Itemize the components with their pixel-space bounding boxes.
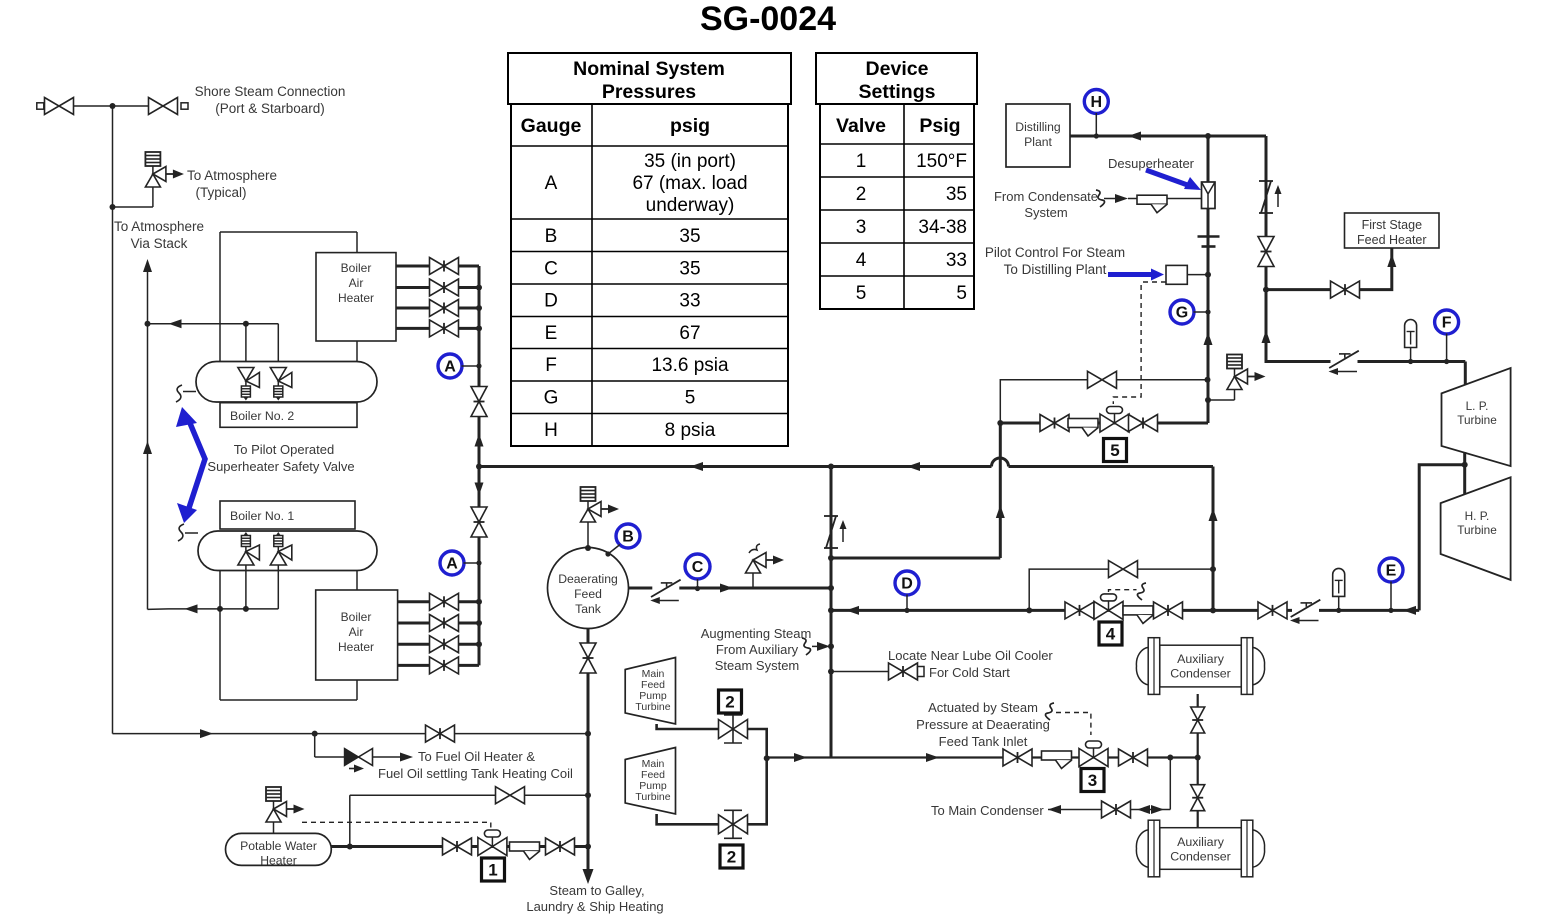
wire BAH1 steam line 1	[398, 600, 479, 603]
junction MFPT exhaust	[764, 755, 770, 761]
wire potable heater steam line y=846	[331, 845, 588, 848]
svg-text:Condenser: Condenser	[1170, 850, 1231, 864]
table DS header text	[836, 58, 961, 137]
junction riser-header	[476, 464, 482, 470]
strainer valve1	[510, 842, 540, 860]
svg-text:Turbine: Turbine	[1457, 413, 1497, 427]
arrowhead drain flow left	[169, 319, 182, 328]
valve lube oil cooler	[889, 663, 918, 680]
svg-text:L. P.: L. P.	[1466, 399, 1489, 413]
valve potable line isolation 1	[443, 838, 472, 855]
svg-text:G: G	[544, 388, 559, 409]
wire gauge F stub	[1446, 334, 1448, 362]
junction drain1 casing	[217, 606, 223, 612]
svg-text:Auxiliary: Auxiliary	[1177, 835, 1225, 849]
drum Boiler No.2	[196, 362, 377, 403]
svg-text:Distilling: Distilling	[1015, 120, 1060, 134]
check valve riser x=831	[824, 516, 847, 548]
wire BAH2 steam line 4	[396, 327, 479, 330]
svg-text:H. P.: H. P.	[1465, 509, 1490, 523]
wire BAH2 to drum	[356, 341, 358, 362]
relief valve on C line	[746, 553, 767, 574]
wire valve4 bypass	[1029, 569, 1213, 610]
turbine L.P.	[1442, 368, 1511, 466]
turbine Main Feed Pump Turbine 1	[625, 658, 675, 725]
svg-text:A: A	[444, 359, 456, 376]
valve 4 bypass	[1109, 561, 1138, 578]
svg-text:35: 35	[679, 259, 700, 280]
junction BAH2 line tee	[476, 285, 482, 291]
safety valve boiler1 left	[238, 532, 260, 565]
wire from condensate	[1104, 198, 1117, 200]
arrowhead distilling flow left	[1128, 132, 1141, 141]
arrowhead riser flow down below header	[475, 483, 484, 496]
valve E line	[1258, 602, 1287, 619]
arrowhead riser flow up to BAH2	[475, 434, 484, 447]
svg-text:Heater: Heater	[338, 291, 374, 305]
gauge F	[1435, 310, 1459, 334]
arrowhead header flow left 1	[690, 462, 703, 471]
arrowhead to main condenser double L	[1137, 805, 1150, 814]
wire BAH1 to drum	[356, 570, 358, 590]
svg-text:To Main Condenser: To Main Condenser	[931, 803, 1044, 818]
svg-text:Pilot Control For Steam: Pilot Control For Steam	[985, 245, 1125, 260]
svg-text:Feed Tank Inlet: Feed Tank Inlet	[939, 734, 1028, 749]
thermometer E line	[1333, 568, 1345, 610]
svg-text:C: C	[544, 259, 558, 280]
brace valve4 pilot	[1137, 583, 1146, 600]
svg-text:Locate Near Lube Oil Cooler: Locate Near Lube Oil Cooler	[888, 648, 1053, 663]
safety valve boiler2 left	[238, 368, 260, 401]
wire lube oil cooler branch	[831, 671, 888, 673]
svg-text:B: B	[545, 226, 558, 247]
wire aux condenser connection	[1197, 694, 1199, 828]
safety valve boiler1 right	[270, 532, 292, 565]
wire desuperheater riser x=1208	[1207, 136, 1210, 423]
svg-text:3: 3	[856, 217, 867, 238]
svg-text:Gauge: Gauge	[521, 115, 582, 137]
check valve E line	[1290, 600, 1320, 624]
control valve 4	[1094, 594, 1123, 620]
svg-text:Feed Heater: Feed Heater	[1357, 233, 1426, 247]
junction boiler2 drain tee	[145, 321, 151, 327]
brace augmenting steam	[802, 638, 811, 655]
valve BAH1 line 4	[430, 657, 459, 674]
svg-text:For Cold Start: For Cold Start	[929, 665, 1010, 680]
check valve F line	[1329, 351, 1359, 375]
svg-text:Heater: Heater	[260, 854, 297, 868]
wire to fuel oil heater branch	[314, 734, 316, 757]
wire stack vent riser x=147	[147, 262, 149, 609]
svg-text:Turbine: Turbine	[1457, 523, 1497, 537]
svg-text:Steam System: Steam System	[715, 658, 800, 673]
gauge E	[1379, 558, 1403, 582]
wire MFPT1 exhaust	[657, 724, 767, 758]
valve aux condenser upper	[1191, 707, 1205, 733]
svg-text:Boiler No. 1: Boiler No. 1	[230, 509, 294, 523]
svg-text:Potable Water: Potable Water	[240, 839, 317, 853]
svg-text:F: F	[545, 355, 557, 376]
svg-text:Superheater Safety Valve: Superheater Safety Valve	[207, 459, 354, 474]
wire riser x=1213 from header	[1212, 467, 1215, 611]
junction bypass riser	[347, 844, 353, 850]
svg-text:8 psia: 8 psia	[665, 420, 716, 441]
control valve 3	[1079, 741, 1108, 767]
valve BAH1 line 1	[430, 593, 459, 610]
wire valve5 bypass	[1000, 380, 1207, 423]
svg-text:To Atmosphere: To Atmosphere	[187, 168, 277, 183]
wire boiler1 casing right lower	[356, 680, 358, 700]
svg-text:psig: psig	[670, 115, 710, 137]
svg-text:13.6 psia: 13.6 psia	[651, 355, 729, 376]
arrowhead steam to galley down	[583, 869, 594, 884]
vessel Auxiliary Condenser lower	[1136, 820, 1264, 877]
wire sv riser right boiler1	[277, 565, 279, 609]
brace from condensate	[1096, 190, 1105, 207]
svg-text:underway): underway)	[646, 195, 735, 216]
valve shore steam port	[45, 98, 74, 115]
svg-text:Boiler: Boiler	[341, 610, 372, 624]
svg-text:Steam to Galley,: Steam to Galley,	[549, 883, 644, 898]
dashed pilot line valve 4	[1109, 590, 1137, 592]
junction condenser line	[1195, 755, 1201, 761]
wire potable relief stem	[273, 822, 275, 833]
flange cap left	[37, 103, 44, 109]
arrowhead header flow left 2	[907, 462, 920, 471]
svg-text:33: 33	[946, 250, 967, 271]
wire gauge H stub	[1095, 113, 1097, 136]
svg-text:D: D	[901, 576, 913, 593]
numbox 2 upper	[719, 690, 742, 713]
relief valve potable water heater	[266, 787, 305, 822]
wire auxiliary steam header y=466	[479, 465, 1213, 468]
flange cap right	[181, 103, 188, 109]
arrowhead drain1 flow left	[185, 604, 198, 613]
wire E line corner riser	[1419, 465, 1465, 611]
svg-text:1: 1	[856, 151, 867, 172]
svg-text:Device: Device	[866, 58, 929, 80]
valve 5 isolation right	[1129, 415, 1158, 432]
junction valve4 bypass riser	[1026, 607, 1032, 613]
strainer valve3	[1042, 751, 1072, 769]
table Device Settings	[816, 53, 977, 309]
svg-text:Laundry & Ship Heating: Laundry & Ship Heating	[526, 899, 663, 914]
valve BAH1 line 3	[430, 636, 459, 653]
svg-text:Nominal System: Nominal System	[573, 58, 725, 80]
valve aux condenser lower	[1191, 785, 1205, 811]
valve fuel oil line	[426, 725, 455, 742]
wire valve5 line y=423	[1000, 422, 1208, 425]
box pilot control	[1166, 265, 1187, 284]
svg-text:Via Stack: Via Stack	[131, 236, 188, 251]
svg-text:A: A	[545, 173, 558, 194]
junction pilot box	[1205, 272, 1211, 278]
arrowhead stack vent up	[143, 259, 152, 272]
junction first stage feed heater branch	[1263, 287, 1269, 293]
wire gauge G stub	[1194, 311, 1209, 313]
junction turbine bleed	[1462, 462, 1468, 468]
svg-text:5: 5	[685, 388, 696, 409]
wire link y=558	[831, 557, 1000, 560]
svg-text:To Atmosphere: To Atmosphere	[114, 219, 204, 234]
svg-text:Valve: Valve	[836, 115, 886, 137]
svg-text:First Stage: First Stage	[1362, 218, 1422, 232]
numbox 4	[1099, 622, 1122, 645]
junction fuel oil tee	[312, 731, 318, 737]
box label Boiler No. 2	[220, 403, 357, 428]
wire tank relief stem	[587, 522, 589, 549]
svg-text:Desuperheater: Desuperheater	[1108, 156, 1195, 171]
svg-text:35 (in port): 35 (in port)	[644, 151, 736, 172]
svg-text:Deaerating: Deaerating	[558, 572, 618, 586]
blue arrow desuperheater	[1146, 170, 1193, 187]
hop bridge over x=1000 riser	[992, 458, 1009, 467]
svg-text:Auxiliary: Auxiliary	[1177, 652, 1225, 666]
relief valve steam to distilling	[1227, 355, 1266, 390]
junction BAH2 line tee	[476, 325, 482, 331]
wire shore steam horizontal	[43, 105, 151, 107]
dashed pilot line valve 3	[1056, 713, 1091, 736]
dashed pilot line valve 5	[1113, 285, 1141, 404]
wire MFPT2 exhaust	[657, 758, 767, 824]
junction header x=831	[828, 464, 834, 470]
arrowhead E line flow left	[1403, 606, 1416, 615]
wire left main riser x=112	[112, 106, 114, 734]
wire boiler1 safety drain line	[169, 608, 279, 610]
svg-text:F: F	[1442, 315, 1452, 332]
numbox 1	[482, 858, 505, 881]
junction desuperheater riser	[1205, 133, 1211, 139]
svg-text:Boiler: Boiler	[341, 261, 372, 275]
wire riser x=478 boiler steam	[478, 266, 481, 665]
arrowhead exhaust flow right	[794, 753, 807, 762]
wire BAH2 steam line 2	[396, 286, 479, 289]
wire boiler2 casing right upper	[356, 232, 358, 253]
check valve tank outlet	[650, 580, 680, 604]
junction relief branch	[1205, 397, 1211, 403]
strainer condensate line	[1137, 195, 1167, 213]
junction valve4 bypass	[1210, 566, 1216, 572]
svg-text:3: 3	[1088, 771, 1097, 790]
svg-text:Turbine: Turbine	[635, 701, 670, 713]
svg-text:5: 5	[856, 283, 867, 304]
wire boiler2 casing left	[219, 232, 221, 362]
junction galley-bypass	[585, 792, 591, 798]
svg-text:H: H	[544, 420, 558, 441]
svg-text:From Condensate: From Condensate	[994, 189, 1098, 204]
wire MFPT exhaust header y=757	[767, 756, 1198, 758]
svg-text:4: 4	[1106, 625, 1116, 644]
junction C line to x=831 riser	[828, 585, 834, 591]
junction x=1213	[1210, 607, 1216, 613]
valve BAH2 line 2	[430, 279, 459, 296]
wire galley steam line x=588	[587, 629, 590, 870]
svg-text:Condenser: Condenser	[1170, 667, 1231, 681]
blue arrow pilot control	[1108, 272, 1155, 277]
arrowhead into FSFH	[1387, 254, 1396, 267]
junction BAH2 line tee	[476, 305, 482, 311]
wire to atmosphere relief elbow	[113, 206, 153, 208]
arrowhead C line flow right	[720, 584, 733, 593]
wire main line D y=610	[831, 609, 1419, 612]
wire C line relief stem	[752, 573, 754, 588]
svg-text:To Fuel Oil Heater &: To Fuel Oil Heater &	[418, 749, 535, 764]
orifice bars	[1198, 235, 1220, 238]
svg-text:150°F: 150°F	[916, 151, 967, 172]
svg-text:To Pilot Operated: To Pilot Operated	[234, 442, 334, 457]
relief valve deaerating tank	[581, 487, 620, 522]
junction sv riser left	[243, 321, 249, 327]
svg-text:System: System	[1024, 205, 1067, 220]
wire pressure reducing bypass y=795	[350, 794, 588, 796]
valve shore steam starboard	[149, 98, 178, 115]
svg-text:(Typical): (Typical)	[195, 185, 246, 200]
tank Potable Water Heater	[226, 833, 332, 865]
numbox 3	[1081, 769, 1104, 792]
wire BAH2 steam line 3	[396, 307, 479, 310]
junction y=558 branch	[828, 555, 834, 561]
arrowhead from condensate	[1115, 194, 1128, 203]
svg-text:B: B	[622, 529, 634, 546]
safety valve boiler2 right	[270, 368, 292, 401]
svg-text:C: C	[692, 559, 704, 576]
numbox 2 lower	[720, 845, 743, 868]
valve 3 isolation left	[1003, 749, 1032, 766]
wire riser x=1000	[999, 423, 1002, 558]
valve 2 lower	[719, 810, 748, 838]
desuperheater symbol	[1202, 182, 1216, 209]
valve BAH2 line 1	[430, 258, 459, 275]
box Distilling Plant	[1006, 104, 1070, 167]
svg-text:(Port & Starboard): (Port & Starboard)	[215, 101, 325, 116]
svg-text:D: D	[544, 291, 558, 312]
gauge C	[685, 554, 710, 579]
arrowhead fuel line flow right	[200, 729, 213, 738]
arrowhead fuel flow small	[349, 768, 357, 770]
wire distilling supply y=136	[1070, 135, 1266, 138]
junction shore steam tee	[110, 103, 116, 109]
svg-text:5: 5	[956, 283, 967, 304]
wire to main condenser	[1048, 809, 1170, 811]
svg-text:1: 1	[488, 861, 497, 880]
svg-text:E: E	[545, 323, 558, 344]
svg-text:Plant: Plant	[1024, 135, 1052, 149]
wire riser x=1266	[1266, 136, 1465, 362]
junction BAH1 line tee	[476, 620, 482, 626]
table DS body text	[856, 151, 967, 304]
svg-text:Turbine: Turbine	[635, 791, 670, 803]
junction tank top	[585, 545, 591, 551]
wire BAH1 steam line 4	[398, 664, 479, 667]
dashed pilot line valve 1	[302, 822, 491, 829]
thermometer F line	[1405, 320, 1417, 362]
dashed pilot signal from box	[1141, 281, 1166, 283]
break squiggle drum2 left	[176, 385, 182, 402]
valve 3 isolation right	[1119, 749, 1148, 766]
svg-text:35: 35	[679, 226, 700, 247]
arrowhead to main condenser double R	[1151, 805, 1164, 814]
svg-text:G: G	[1176, 305, 1188, 322]
svg-text:67 (max. load: 67 (max. load	[632, 173, 747, 194]
arrowhead riser 1213 up flow	[1209, 508, 1218, 521]
blue double arrow superheater safety valve	[187, 416, 205, 514]
arrowhead riser 1208 up flow	[1204, 332, 1213, 345]
svg-text:4: 4	[856, 250, 867, 271]
valve BAH2 line 3	[430, 300, 459, 317]
turbine Main Feed Pump Turbine 2	[625, 748, 675, 815]
junction BAH1 line tee	[476, 641, 482, 647]
junction valve5 line corner	[997, 420, 1003, 426]
strainer valve4	[1123, 606, 1153, 624]
table NSP header text	[521, 58, 725, 137]
wire LP turbine inlet	[1464, 362, 1467, 386]
numbox 5	[1104, 439, 1127, 462]
tank Deaerating Feed Tank	[548, 548, 629, 629]
svg-text:Air: Air	[349, 625, 364, 639]
table NSP body text	[544, 151, 748, 441]
svg-text:Feed: Feed	[574, 587, 602, 601]
wire fuel oil supply line y=733	[113, 733, 589, 735]
arrowhead augmenting into riser	[817, 642, 830, 651]
relief valve to atmosphere (typical)	[145, 152, 184, 187]
brace actuated by steam	[1045, 703, 1054, 720]
svg-text:2: 2	[856, 184, 867, 205]
svg-text:34-38: 34-38	[918, 217, 967, 238]
wire boiler1 casing bottom	[220, 699, 357, 701]
drum Boiler No.1	[198, 531, 377, 571]
svg-text:2: 2	[725, 693, 734, 712]
junction relief tee	[110, 204, 116, 210]
wire turbine bleed connections	[1463, 452, 1466, 494]
svg-text:Boiler No. 2: Boiler No. 2	[230, 409, 294, 423]
wire BAH1 steam line 3	[398, 643, 479, 646]
wire gauge D stub	[906, 595, 908, 611]
arrowhead to main condenser left	[1048, 805, 1061, 814]
box Boiler Air Heater no.2	[316, 253, 396, 341]
arrowhead to fuel oil heater	[400, 753, 413, 762]
valve 2 upper	[719, 715, 748, 743]
wire relief branch x=1234	[1208, 399, 1235, 401]
valve to fuel oil heater (half filled)	[345, 749, 359, 766]
control valve 5	[1100, 407, 1129, 433]
junction to-main-condenser riser	[1167, 755, 1173, 761]
svg-text:Settings: Settings	[859, 81, 936, 103]
junction augmenting	[828, 643, 834, 649]
valve riser lower stop	[471, 507, 487, 537]
wire sv riser right boiler2	[277, 324, 279, 368]
wire tank outlet line C	[629, 587, 832, 590]
svg-text:Psig: Psig	[919, 115, 960, 137]
valve 4 isolation left	[1065, 602, 1094, 619]
svg-text:Pressures: Pressures	[602, 81, 696, 103]
valve riser x=1266	[1258, 237, 1274, 267]
valve to main condenser	[1102, 801, 1131, 818]
wire sv riser left boiler2	[245, 324, 247, 368]
arrowhead D flow left	[846, 606, 859, 615]
wire riser to main condenser	[1169, 758, 1171, 810]
flange cap lube valve	[918, 667, 925, 677]
valve 4 isolation right	[1154, 602, 1183, 619]
wire gauge B stub	[608, 545, 620, 555]
junction galley-potable	[585, 844, 591, 850]
valve 5 bypass	[1088, 371, 1117, 388]
svg-text:Air: Air	[349, 276, 364, 290]
box First Stage Feed Heater	[1345, 213, 1440, 248]
wire gauge A lower stub	[464, 562, 480, 564]
valve 5 isolation left	[1040, 415, 1069, 432]
box label Boiler No. 1	[220, 501, 355, 529]
svg-text:33: 33	[679, 291, 700, 312]
